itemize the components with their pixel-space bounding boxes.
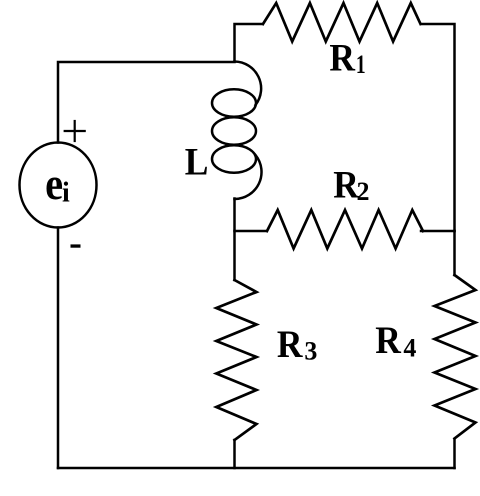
voltage source ei: [20, 143, 97, 228]
svg-text:3: 3: [304, 337, 317, 366]
svg-text:R: R: [277, 324, 304, 367]
wire top-left horizontal to source: [58, 62, 235, 143]
resistor R4: [435, 275, 476, 439]
svg-text:R: R: [375, 319, 402, 362]
wire inductor to R3 (middle vertical): [233, 199, 236, 281]
resistor R1: [263, 3, 421, 42]
wire right rail R2 node to R4: [453, 231, 456, 275]
svg-text:4: 4: [403, 333, 416, 362]
resistor R3: [216, 280, 256, 440]
svg-text:2: 2: [357, 177, 370, 206]
svg-text:i: i: [62, 178, 70, 209]
wire source to bottom-left: [57, 228, 60, 469]
wire node to R2: [235, 230, 267, 233]
polarity minus sign: [71, 244, 81, 247]
svg-text:e: e: [45, 159, 63, 210]
inductor L: [212, 62, 262, 200]
wire R3 to bottom rail: [233, 440, 236, 468]
wire R4 to bottom rail: [453, 440, 456, 469]
resistor R2: [267, 210, 423, 249]
svg-text:L: L: [185, 141, 209, 184]
wire R1 to right rail: [421, 24, 455, 231]
wire top-left node to R1 (middle vertical up and across top): [235, 24, 263, 62]
svg-text:R: R: [329, 37, 356, 80]
polarity plus sign: [65, 121, 85, 141]
wire bottom rail: [58, 467, 455, 470]
wire R2 to right rail: [421, 230, 455, 233]
svg-text:1: 1: [356, 50, 366, 78]
